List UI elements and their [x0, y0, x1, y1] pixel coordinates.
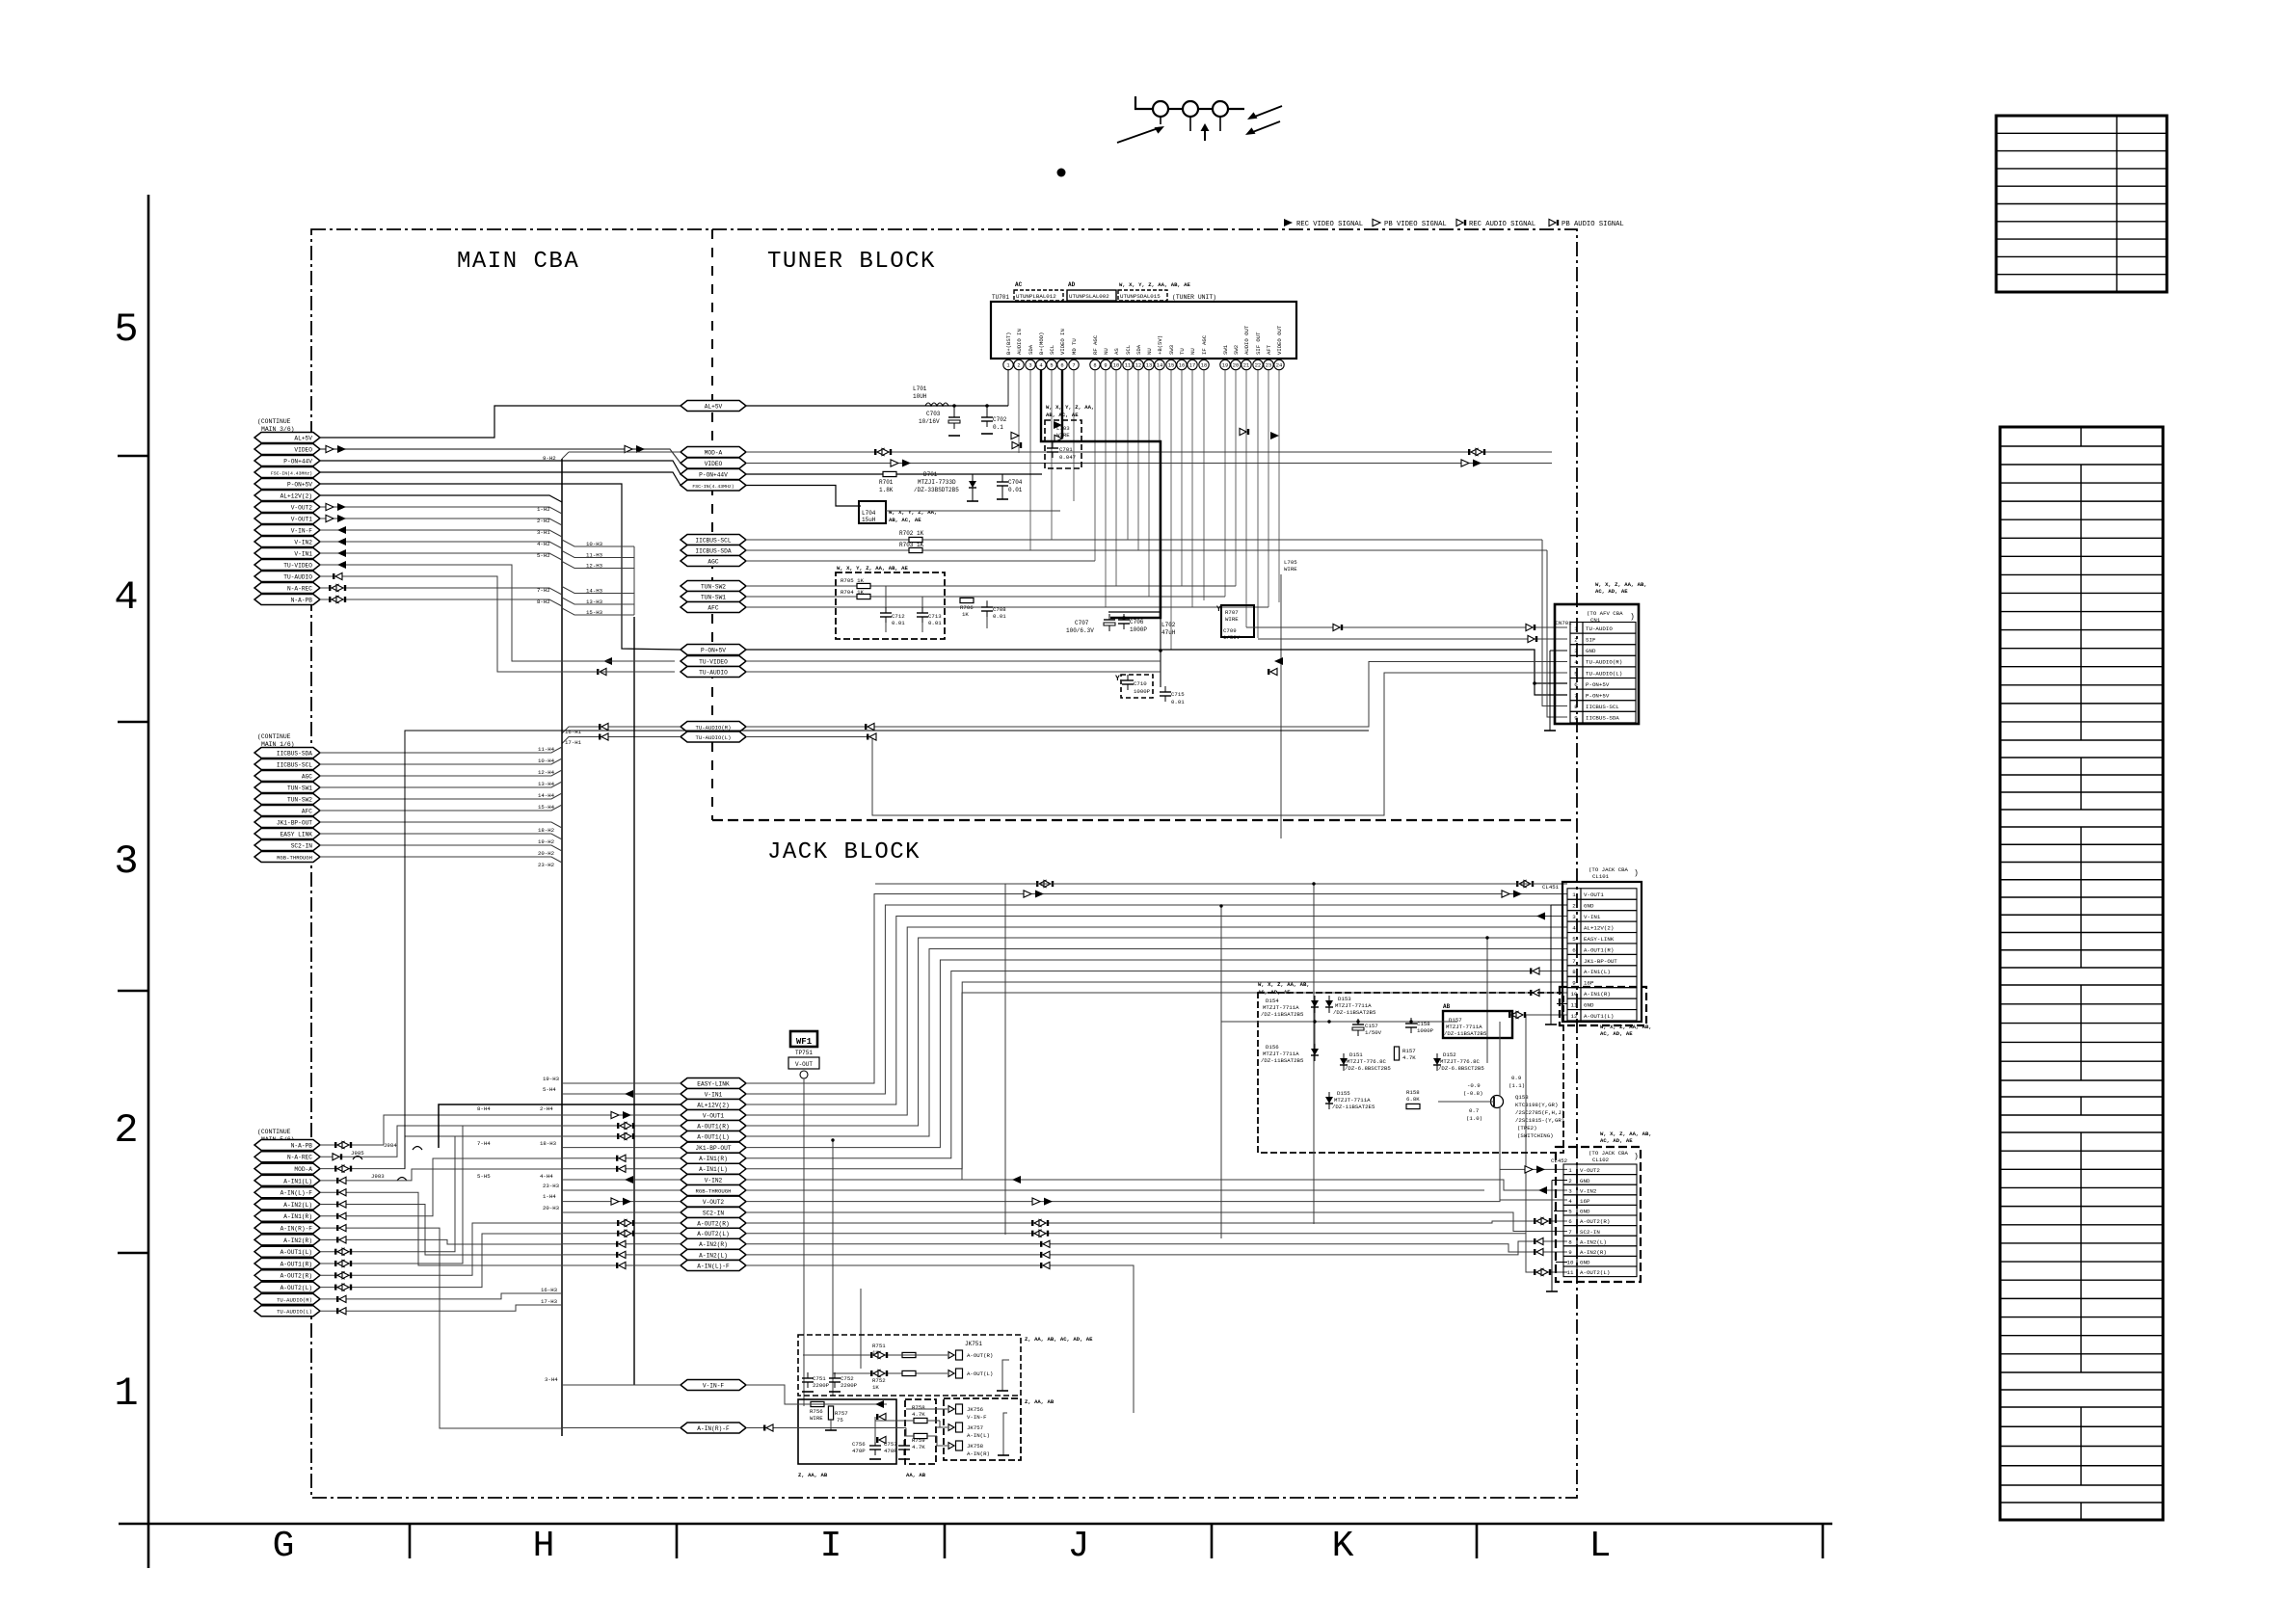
svg-text:A-OUT1(R): A-OUT1(R) — [697, 1123, 729, 1130]
svg-text:FSC-IN(4.43MHz): FSC-IN(4.43MHz) — [692, 484, 734, 490]
wire A-IN(R)-F — [320, 1227, 376, 1229]
svg-text:1: 1 — [1568, 1167, 1572, 1174]
wire riser x500 — [376, 1234, 562, 1288]
wire A-IN1(L) left — [562, 1168, 681, 1170]
svg-text:A-IN2(R): A-IN2(R) — [283, 1237, 312, 1244]
svg-text:N-A-REC: N-A-REC — [287, 1155, 312, 1161]
svg-text:R157: R157 — [1402, 1048, 1416, 1054]
CL451 pin 9 16P — [1567, 976, 1581, 987]
node A-IN2(L) — [681, 1249, 746, 1260]
svg-text:R756: R756 — [810, 1408, 823, 1415]
wire staircase 5 — [746, 949, 1567, 1137]
svg-text:SC2-IN: SC2-IN — [703, 1210, 725, 1216]
svg-text:(-0.8): (-0.8) — [1463, 1090, 1482, 1097]
node IICBUS-SDA (main 1/6) — [254, 748, 320, 758]
R704 R705 filter box — [836, 572, 945, 639]
wire SC2-IN — [320, 845, 562, 851]
node RGB-THROUGH — [681, 1185, 746, 1196]
CL451 pin 10 A-IN1(R) — [1567, 988, 1581, 998]
node EASY-LINK — [681, 1078, 746, 1089]
svg-text:R701: R701 — [879, 479, 894, 486]
wire riser x456 — [376, 1228, 562, 1428]
svg-text:SW2: SW2 — [1233, 345, 1240, 355]
svg-text:+B(5V): +B(5V) — [1157, 335, 1163, 355]
R758/R759 box — [905, 1399, 936, 1464]
resistor R702 — [909, 537, 922, 542]
node TU-AUDIO(L) (main 5/6) — [254, 1306, 320, 1317]
svg-text:W, X, Y, Z, AA, AB, AE: W, X, Y, Z, AA, AB, AE — [1119, 281, 1190, 288]
svg-text:TU-AUDIO(L): TU-AUDIO(L) — [696, 734, 732, 741]
svg-text:1/50V: 1/50V — [1223, 634, 1241, 641]
svg-text:1000P: 1000P — [1130, 626, 1147, 633]
svg-text:A-OUT(R): A-OUT(R) — [967, 1352, 993, 1359]
svg-text:A-OUT2(L): A-OUT2(L) — [280, 1285, 312, 1291]
node A-IN1(R) — [681, 1153, 746, 1163]
svg-text:MTZJI-7733D: MTZJI-7733D — [918, 479, 956, 486]
svg-text:1K: 1K — [962, 611, 969, 618]
svg-text:16: 16 — [1179, 363, 1185, 369]
wire AFC — [746, 606, 1268, 608]
svg-text:C712: C712 — [892, 613, 905, 620]
icon diagonal arrow left — [1117, 128, 1160, 144]
svg-text:SCL: SCL — [1125, 345, 1132, 355]
wire TU-AUDIO(R) row — [562, 727, 681, 733]
svg-text:A-IN1(L): A-IN1(L) — [1584, 969, 1611, 975]
wire IICBUS-SDA to CN701 — [1547, 550, 1567, 717]
svg-text:IICBUS-SCL: IICBUS-SCL — [1586, 704, 1619, 710]
svg-text:N-A-PB: N-A-PB — [291, 1142, 313, 1149]
svg-text:12-H4: 12-H4 — [538, 769, 555, 776]
svg-text:V-OUT2: V-OUT2 — [703, 1199, 725, 1206]
svg-text:SW1: SW1 — [1222, 344, 1229, 355]
CN701 pin 4 TU-AUDIO(R) — [1570, 655, 1583, 667]
svg-text:23: 23 — [1266, 363, 1271, 369]
node AGC — [681, 556, 746, 567]
output jack box Z AA AB AC — [798, 1335, 1021, 1396]
svg-text:0.01: 0.01 — [993, 613, 1006, 620]
svg-text:6: 6 — [1572, 946, 1576, 953]
wire P-ON+44V — [320, 461, 681, 474]
wire AGC — [746, 560, 1095, 562]
signal legend — [1284, 219, 1293, 226]
svg-text:Z, AA, AB, AC, AD, AE: Z, AA, AB, AC, AD, AE — [1025, 1336, 1093, 1343]
wire V-OUT1 — [320, 519, 562, 525]
svg-text:JK757: JK757 — [967, 1424, 983, 1431]
svg-text:SC2-IN: SC2-IN — [291, 842, 313, 849]
svg-text:A-OUT1(R): A-OUT1(R) — [280, 1261, 312, 1267]
wire RGB-THROUGH left — [562, 1189, 681, 1191]
svg-text:JK1-BP-OUT: JK1-BP-OUT — [277, 819, 312, 826]
svg-text:P-ON+5V: P-ON+5V — [1586, 681, 1610, 688]
svg-text:RGB-THROUGH: RGB-THROUGH — [696, 1187, 732, 1194]
svg-text:JK756: JK756 — [967, 1406, 984, 1413]
node A-OUT1(R) (main 5/6) — [254, 1259, 320, 1269]
svg-text:(CONTINUE: (CONTINUE — [257, 418, 291, 425]
svg-text:RGB-THROUGH: RGB-THROUGH — [277, 854, 312, 861]
svg-text:3-H4: 3-H4 — [545, 1376, 558, 1383]
wire TUN-SW2 — [320, 793, 562, 799]
svg-text:15: 15 — [1168, 363, 1174, 369]
svg-text:7: 7 — [1568, 1229, 1572, 1236]
svg-text:J: J — [1068, 1526, 1090, 1567]
svg-text:MTZJT-7711A: MTZJT-7711A — [1263, 1051, 1299, 1057]
svg-text:R751: R751 — [872, 1343, 886, 1349]
svg-text:MTZJT-776.8C: MTZJT-776.8C — [1347, 1058, 1387, 1065]
wire VIDEO tuner side — [746, 463, 1552, 465]
svg-text:100/6.3V: 100/6.3V — [1066, 627, 1094, 634]
node V-OUT2 (main 3/6) — [254, 502, 320, 513]
svg-text:AUDIO IN: AUDIO IN — [1016, 329, 1023, 355]
CL452 pin 10 GND — [1563, 1256, 1577, 1266]
test point WF1 TP751 — [790, 1031, 817, 1047]
svg-text:22: 22 — [1255, 363, 1261, 369]
svg-text:IICBUS-SCL: IICBUS-SCL — [695, 537, 731, 544]
svg-text:9: 9 — [1574, 715, 1578, 722]
svg-text:(SWITCHING): (SWITCHING) — [1517, 1132, 1554, 1139]
CL452 pin 6 A-OUT2(R) — [1563, 1215, 1577, 1226]
svg-text:L701: L701 — [913, 386, 927, 392]
CL451 arrows — [1039, 880, 1046, 887]
node JK1-BP-OUT — [681, 1142, 746, 1153]
wire IICBUS-SCL to CN701 — [1542, 540, 1567, 706]
svg-text:15-H4: 15-H4 — [538, 804, 555, 811]
node EASY LINK (main 1/6) — [254, 829, 320, 839]
svg-text:7-H2: 7-H2 — [537, 587, 550, 594]
wire TU-AUDIO(L) — [320, 1310, 376, 1312]
svg-text:TU: TU — [1179, 348, 1186, 355]
svg-text:AC, AD, AE: AC, AD, AE — [1600, 1030, 1633, 1037]
svg-text:L702: L702 — [1161, 622, 1176, 628]
svg-text:A-OUT1(R): A-OUT1(R) — [1584, 946, 1614, 953]
svg-text:10: 10 — [1567, 1260, 1574, 1266]
svg-text:75: 75 — [837, 1417, 843, 1423]
svg-text:C709: C709 — [1223, 627, 1237, 634]
wire A-IN2(L) — [320, 1204, 376, 1206]
svg-text:A-OUT2(R): A-OUT2(R) — [1580, 1218, 1610, 1225]
CL452 pin 2 GND — [1563, 1175, 1577, 1185]
svg-text:K: K — [1332, 1526, 1354, 1567]
svg-text:3-H1: 3-H1 — [537, 529, 550, 536]
svg-text:Z, AA, AB: Z, AA, AB — [1025, 1398, 1055, 1405]
svg-text:P-ON+5V: P-ON+5V — [287, 481, 312, 488]
svg-text:19-H3: 19-H3 — [543, 1076, 560, 1082]
svg-text:Z, AA, AB: Z, AA, AB — [798, 1472, 828, 1478]
svg-text:L705: L705 — [1284, 559, 1297, 566]
svg-text:13-H4: 13-H4 — [538, 781, 555, 787]
svg-text:(1.0): (1.0) — [1466, 1115, 1482, 1122]
diode block internal wires — [1221, 1021, 1457, 1023]
wire riser x427 — [376, 1169, 562, 1181]
bullet dot — [1057, 169, 1066, 177]
wire V-OUT2 — [320, 507, 562, 514]
wire A-IN(L)-F — [320, 1191, 376, 1193]
svg-text:TUN-SW1: TUN-SW1 — [287, 785, 312, 791]
svg-text:A-IN2(R): A-IN2(R) — [699, 1241, 728, 1248]
svg-text:WIRE: WIRE — [1284, 566, 1297, 572]
svg-text:A-IN(R): A-IN(R) — [967, 1450, 990, 1457]
svg-text:SCL: SCL — [1049, 345, 1055, 355]
svg-text:C157: C157 — [1365, 1023, 1378, 1029]
svg-text:4: 4 — [114, 574, 138, 621]
svg-text:B+(MOD): B+(MOD) — [1038, 333, 1045, 356]
svg-text:AL+12V(2): AL+12V(2) — [697, 1102, 729, 1108]
svg-text:0.01: 0.01 — [1008, 487, 1023, 493]
svg-text:20-H2: 20-H2 — [538, 850, 555, 857]
wire SIF OUT to CN701 — [1258, 638, 1567, 640]
svg-text:(TO JACK CBA: (TO JACK CBA — [1589, 866, 1629, 873]
svg-text:SDA: SDA — [1135, 344, 1142, 355]
node RGB-THROUGH (main 1/6) — [254, 852, 320, 863]
svg-text:(TO AFV CBA: (TO AFV CBA — [1587, 610, 1623, 617]
svg-text:15uH: 15uH — [862, 517, 876, 523]
wire IICBUS-SDA — [746, 549, 1547, 551]
CL452 pin 9 A-IN2(R) — [1563, 1246, 1577, 1257]
CN701 pin 6 P-ON+5V — [1570, 678, 1583, 690]
svg-text:6.8K: 6.8K — [1406, 1096, 1420, 1103]
wire TU-AUDIO(R) — [320, 1298, 376, 1300]
CL451 pin 12 A-OUT1(L) — [1567, 1010, 1581, 1021]
svg-text:10: 10 — [1571, 991, 1578, 998]
wire P-ON+5V to CN701 — [746, 650, 1567, 683]
node TUN-SW1 (main 1/6) — [254, 783, 320, 793]
svg-text:W, X, Z, AA, AB,: W, X, Z, AA, AB, — [1258, 981, 1310, 988]
node IICBUS-SCL — [681, 535, 746, 545]
node JK1-BP-OUT (main 1/6) — [254, 817, 320, 828]
wire riser x535 — [376, 1305, 562, 1311]
wire AL+5V — [320, 406, 681, 438]
jack grounds — [945, 1413, 948, 1454]
wire riser x434 — [376, 1192, 562, 1265]
node A-IN2(L) (main 5/6) — [254, 1199, 320, 1210]
svg-text:23-H2: 23-H2 — [538, 862, 555, 868]
svg-text:REC VIDEO SIGNAL: REC VIDEO SIGNAL — [1296, 221, 1363, 228]
svg-text:JK758: JK758 — [967, 1443, 984, 1450]
extra jack vertical — [1004, 884, 1006, 1235]
node TUN-SW1 — [681, 592, 746, 602]
svg-text:5: 5 — [1574, 670, 1578, 677]
svg-text:2-H4: 2-H4 — [540, 1105, 553, 1112]
node MOD-A — [681, 447, 746, 458]
svg-text:/DZ-11BSAT2B5: /DZ-11BSAT2B5 — [1333, 1009, 1376, 1016]
wire RGB-THROUGH — [746, 1189, 1484, 1191]
svg-text:V-IN2: V-IN2 — [1580, 1187, 1597, 1194]
svg-text:23-H3: 23-H3 — [543, 1183, 560, 1189]
node A-IN1(L) — [681, 1163, 746, 1174]
resistor R703 — [909, 547, 922, 552]
svg-text:C710: C710 — [1134, 680, 1147, 687]
svg-text:JK1-BP-OUT: JK1-BP-OUT — [1584, 958, 1617, 965]
CL451 pin 3 V-IN1 — [1567, 911, 1581, 921]
svg-text:12: 12 — [1571, 1013, 1578, 1020]
svg-text:V-IN2: V-IN2 — [294, 539, 312, 545]
node A-IN(L)-F (main 5/6) — [254, 1187, 320, 1198]
CN701 pin 9 IICBUS-SDA — [1570, 711, 1583, 723]
wire A-OUT2(R) — [320, 1274, 376, 1276]
svg-text:A-OUT2(R): A-OUT2(R) — [697, 1220, 729, 1227]
svg-text:2200P: 2200P — [813, 1382, 830, 1389]
svg-text:470P: 470P — [884, 1448, 897, 1454]
svg-text:TU-AUDIO(L): TU-AUDIO(L) — [277, 1309, 312, 1316]
svg-text:IICBUS-SDA: IICBUS-SDA — [277, 750, 312, 757]
svg-text:WIRE: WIRE — [1056, 432, 1070, 439]
svg-text:V-IN1: V-IN1 — [705, 1091, 723, 1098]
svg-text:RF AGC: RF AGC — [1092, 334, 1099, 355]
wire TU-AUDIO — [320, 576, 675, 672]
wire N-A-PB — [320, 599, 562, 606]
wire IICBUS-SDA — [320, 747, 562, 753]
svg-text:MTZJT-7711A: MTZJT-7711A — [1335, 1002, 1372, 1009]
svg-text:MTZJT-7711A: MTZJT-7711A — [1334, 1097, 1371, 1104]
svg-text:AUDIO OUT: AUDIO OUT — [1243, 325, 1250, 355]
wire A-OUT2(R) left — [562, 1222, 681, 1224]
svg-text:W, X, Y, Z, AA, AB, AE: W, X, Y, Z, AA, AB, AE — [837, 565, 908, 572]
svg-text:(TO JACK CBA: (TO JACK CBA — [1589, 1150, 1629, 1157]
svg-text:VIDEO IN: VIDEO IN — [1059, 329, 1066, 355]
tuner pin circles 1-24 — [1003, 359, 1013, 369]
svg-text:CL451: CL451 — [1542, 884, 1560, 891]
node AL+5V (main 3/6) — [254, 433, 320, 443]
svg-text:/2SC2785(F,H,J): /2SC2785(F,H,J) — [1515, 1109, 1564, 1116]
svg-text:W, X, Z, AA, AB,: W, X, Z, AA, AB, — [1600, 1024, 1652, 1030]
svg-text:6: 6 — [1574, 681, 1578, 688]
svg-text:AC, AD, AE: AC, AD, AE — [1600, 1137, 1633, 1144]
node TU-VIDEO (main 3/6) — [254, 560, 320, 571]
svg-text:A-IN2(L): A-IN2(L) — [1580, 1238, 1607, 1245]
capacitor C708 — [986, 600, 988, 607]
svg-text:A-OUT1(L): A-OUT1(L) — [1584, 1013, 1614, 1020]
svg-text:NU: NU — [1189, 348, 1196, 355]
wires into jacks — [906, 1408, 948, 1410]
svg-text:/2SC1815-(Y,GR): /2SC1815-(Y,GR) — [1515, 1117, 1564, 1124]
svg-text:4-H2: 4-H2 — [537, 541, 550, 547]
wire A-IN(L)-F left — [562, 1264, 681, 1266]
svg-text:10UH: 10UH — [913, 393, 927, 400]
wire MOD-A — [320, 1168, 376, 1170]
wire EASY LINK — [320, 834, 562, 839]
wire AL+12V(2) left — [562, 1104, 681, 1105]
wire A-OUT1(L) left — [562, 1135, 681, 1137]
wire TU-VIDEO — [320, 565, 675, 661]
wire SC2-IN to CL452 p7 — [746, 1212, 1567, 1232]
svg-text:1: 1 — [1574, 625, 1578, 632]
svg-text:4: 4 — [1568, 1198, 1572, 1205]
node SC2-IN (main 1/6) — [254, 840, 320, 851]
wire TU-VIDEO — [746, 660, 1161, 662]
svg-text:9: 9 — [1104, 363, 1107, 369]
svg-text:UTUNPSLAL002: UTUNPSLAL002 — [1069, 293, 1109, 300]
svg-text:): ) — [1634, 869, 1639, 878]
wire riser x441 — [376, 1205, 562, 1256]
svg-text:20: 20 — [1233, 363, 1239, 369]
svg-text:/DZ-11BSAT2B5: /DZ-11BSAT2B5 — [1261, 1011, 1304, 1018]
svg-text:9: 9 — [1568, 1249, 1572, 1256]
Q153 collector/emitter wires — [1499, 1022, 1501, 1097]
svg-text:J983: J983 — [371, 1173, 385, 1180]
node A-OUT1(R) — [681, 1121, 746, 1131]
svg-text:UTUNPLBAL012: UTUNPLBAL012 — [1016, 293, 1056, 300]
wire staircase 6 — [746, 960, 1567, 1148]
svg-text:MTZJT-7711A: MTZJT-7711A — [1446, 1024, 1482, 1030]
svg-text:18-H2: 18-H2 — [538, 827, 555, 834]
svg-text:7: 7 — [1572, 958, 1576, 965]
svg-text:VIDEO: VIDEO — [294, 446, 312, 453]
svg-text:A-IN1(R): A-IN1(R) — [1584, 991, 1611, 998]
jack block top border — [712, 819, 1577, 821]
svg-text:NU: NU — [1146, 348, 1153, 355]
node TU-AUDIO(R) (main 5/6) — [254, 1293, 320, 1304]
svg-text:P-ON+5V: P-ON+5V — [1586, 693, 1610, 700]
CL451 marker box rows 10-12 — [1560, 987, 1646, 1025]
node A-OUT1(L) — [681, 1131, 746, 1142]
svg-text:C713: C713 — [928, 613, 942, 620]
wire AL+5V to tuner — [746, 405, 923, 407]
svg-text:17-H1: 17-H1 — [565, 739, 582, 746]
svg-text:V-OUT1: V-OUT1 — [703, 1112, 725, 1119]
svg-text:D155: D155 — [1337, 1090, 1350, 1097]
svg-text:4.7K: 4.7K — [1402, 1054, 1416, 1061]
wire IICBUS-SCL — [320, 758, 562, 764]
wire staircase 7 — [746, 971, 1567, 1158]
main cba / tuner outer frame — [311, 229, 1577, 1498]
svg-text:0.01: 0.01 — [1171, 699, 1185, 705]
jack JK757 — [948, 1424, 954, 1431]
svg-text:R757: R757 — [835, 1410, 848, 1417]
CN701 pin 5 TU-AUDIO(L) — [1570, 667, 1583, 678]
wire TUN-SW2 — [746, 585, 1236, 587]
svg-text:N-A-REC: N-A-REC — [287, 585, 312, 592]
svg-text:/DZ-33BSDT2B5: /DZ-33BSDT2B5 — [914, 487, 959, 493]
svg-text:AGC: AGC — [707, 558, 718, 565]
svg-text:AA, AB: AA, AB — [906, 1472, 926, 1478]
node A-IN(R)-F — [681, 1423, 746, 1433]
svg-text:(CONTINUE: (CONTINUE — [257, 1129, 291, 1135]
svg-text:1000P: 1000P — [1134, 688, 1151, 695]
svg-text:2: 2 — [114, 1107, 138, 1154]
svg-text:5: 5 — [114, 306, 138, 353]
svg-text:JK751: JK751 — [965, 1341, 982, 1347]
node V-OUT2 — [681, 1196, 746, 1207]
node V-OUT1 — [681, 1110, 746, 1121]
svg-text:V-OUT1: V-OUT1 — [1584, 891, 1604, 898]
node AGC (main 1/6) — [254, 771, 320, 782]
svg-text:V-OUT2: V-OUT2 — [291, 504, 313, 511]
wire A-IN2(L) left — [562, 1254, 681, 1256]
svg-text:L: L — [1589, 1526, 1612, 1567]
wire A-IN1(R) — [320, 1215, 376, 1217]
inductor L701 — [923, 405, 952, 407]
wire JK1-BP-OUT left — [562, 1147, 681, 1149]
svg-text:7-H4: 7-H4 — [477, 1140, 491, 1147]
wire A-IN(L)-F — [746, 1265, 1134, 1413]
CL452 pin 4 16P — [1563, 1195, 1577, 1206]
svg-text:CL102: CL102 — [1592, 1157, 1610, 1163]
svg-text:C707: C707 — [1075, 620, 1089, 626]
wire A-IN2(R) to CL452 p9 — [746, 1244, 1567, 1252]
wire A-OUT2(L) to CL452 p11 — [746, 1234, 1567, 1272]
svg-text:FSC-IN(4.43MHz): FSC-IN(4.43MHz) — [271, 470, 312, 476]
svg-text:1.8K: 1.8K — [879, 487, 894, 493]
svg-text:2200P: 2200P — [841, 1382, 858, 1389]
svg-text:16P: 16P — [1580, 1198, 1590, 1205]
svg-text:11: 11 — [1567, 1269, 1574, 1276]
wire V-IN1 left — [562, 1093, 681, 1095]
wire A-OUT2(R) to CL452 p6 — [746, 1221, 1567, 1223]
node VIDEO — [681, 458, 746, 468]
main/tuner divider — [711, 229, 713, 820]
svg-text:0.1: 0.1 — [993, 424, 1003, 431]
svg-text:V-IN2: V-IN2 — [705, 1177, 723, 1184]
capacitor C715 — [1160, 691, 1171, 693]
